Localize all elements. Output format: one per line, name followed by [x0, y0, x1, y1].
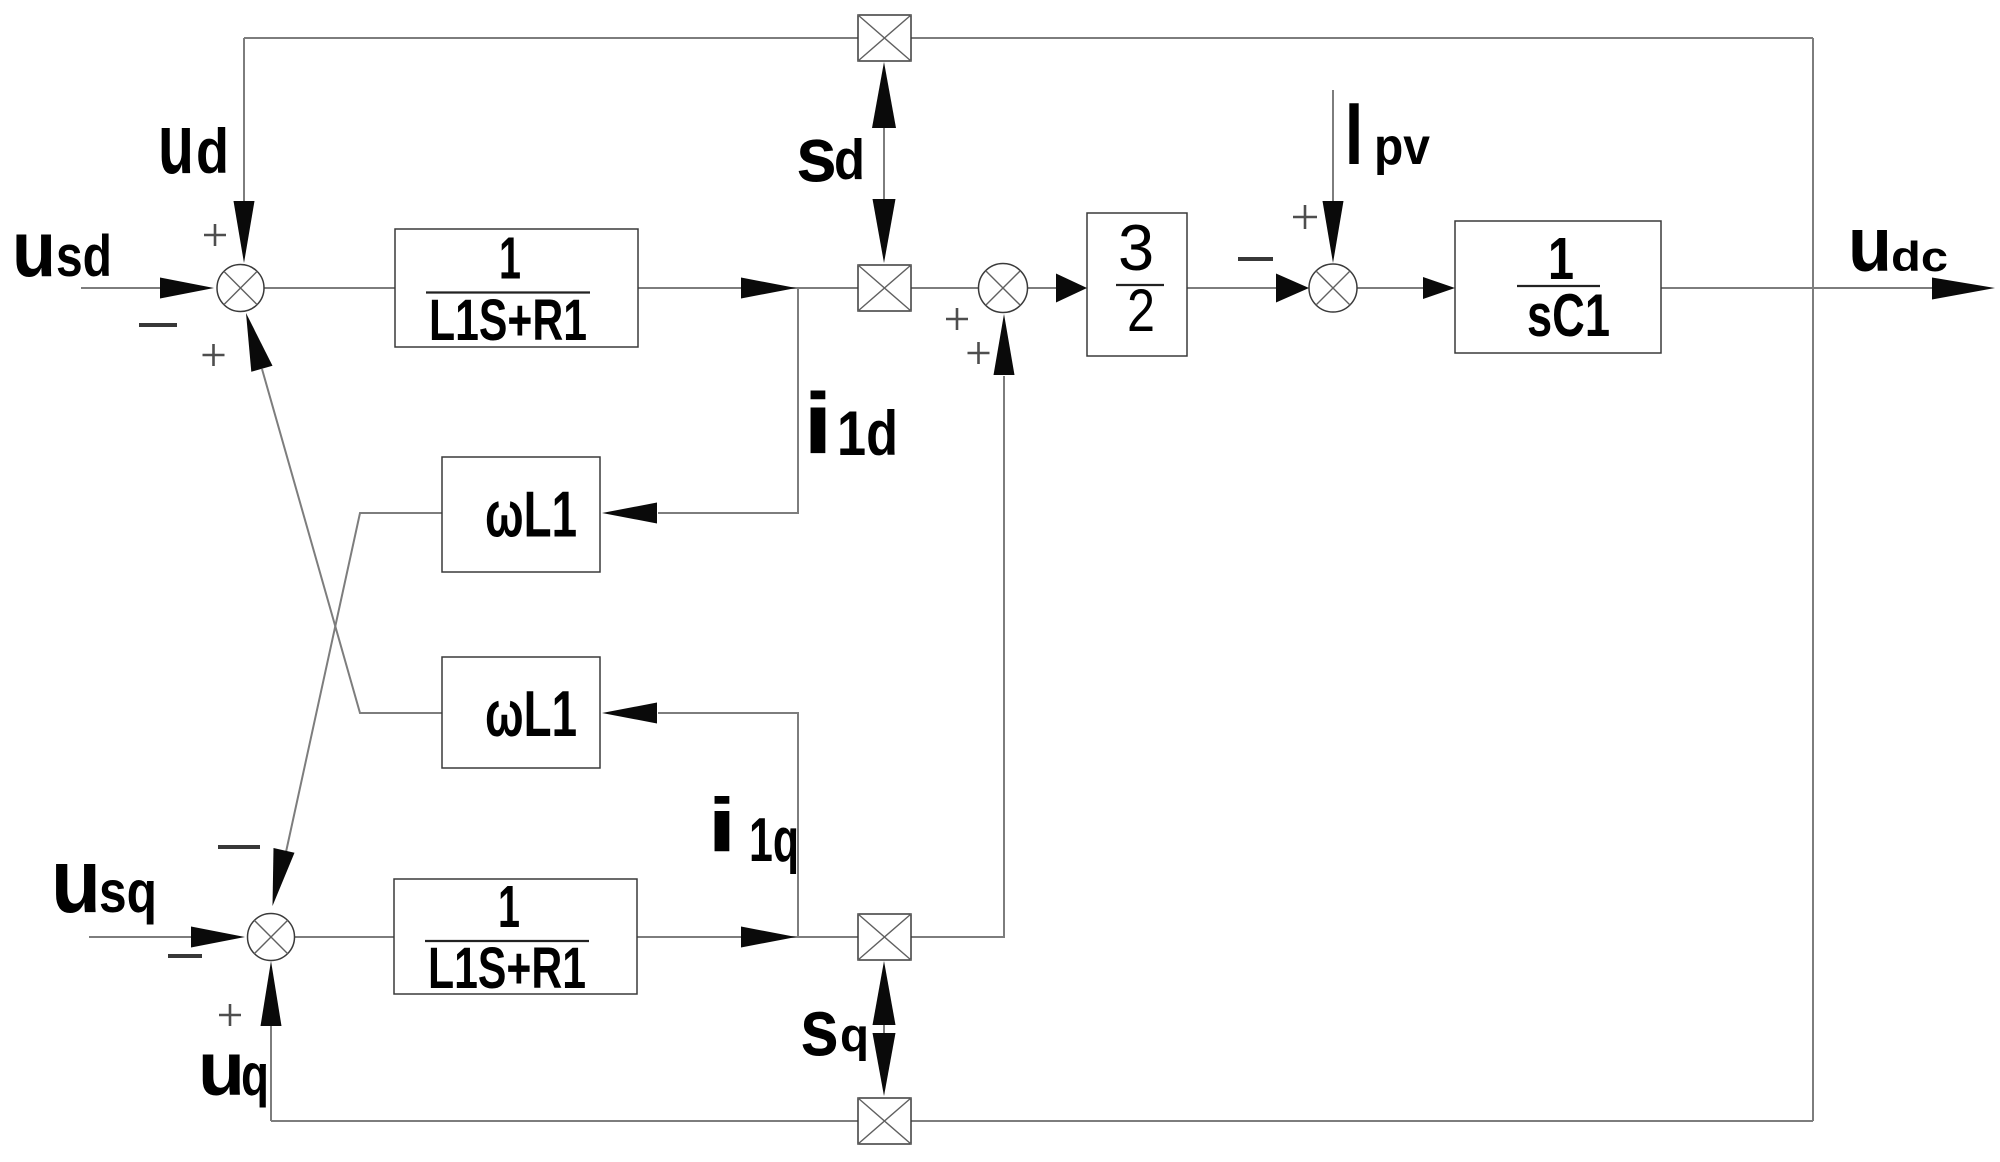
arrow sd up into M1: [872, 62, 896, 128]
wire S3 to block G3: [1357, 287, 1424, 289]
label usq: [51, 831, 157, 932]
label ud: [158, 97, 229, 192]
arrow into upper wL1: [602, 503, 657, 524]
plus sign S4 bottom: [219, 1004, 241, 1026]
svg-text:u: u: [51, 831, 101, 932]
summer S2: [979, 264, 1028, 313]
arrow S2 into G2: [1056, 274, 1087, 303]
minus sign S3 left: [1238, 257, 1273, 261]
wire M3 to S2 riser: [911, 376, 1004, 937]
minus sign S4 left: [168, 954, 202, 958]
wire G2 to summer S3: [1187, 287, 1278, 289]
plus sign S1 bottom: [203, 344, 225, 366]
svg-text:L1S+R1: L1S+R1: [429, 288, 587, 353]
wire udc output: [1661, 287, 1958, 289]
svg-text:L1S+R1: L1S+R1: [428, 936, 586, 1001]
wire S1 to block G1: [264, 287, 395, 289]
wire Ipv input: [1332, 90, 1334, 203]
wire ud drop to summer S1: [243, 38, 245, 205]
arrow upper wL1 diag into S4: [273, 848, 295, 906]
plus sign S3 top: [1293, 205, 1317, 229]
svg-text:s: s: [796, 110, 837, 198]
arrow sq down into M4: [873, 1033, 896, 1096]
svg-text:u: u: [198, 1027, 245, 1112]
svg-text:q: q: [241, 1042, 269, 1108]
wire sd link: [883, 120, 885, 205]
label sq: [800, 983, 869, 1073]
wire right feedback: [1812, 38, 1814, 1121]
label usd: [12, 204, 112, 293]
svg-text:1q: 1q: [749, 806, 799, 875]
wire lower wL1 output: [262, 369, 442, 713]
multiplier M1 top: [858, 15, 911, 61]
arrow usd into S1: [160, 278, 214, 299]
svg-text:1d: 1d: [837, 399, 898, 469]
arrow M3 riser into S2: [994, 314, 1015, 375]
plus sign S1 top: [204, 224, 226, 246]
block G1 1/(L1S+R1): [395, 226, 638, 354]
multiplier M4 bottom: [858, 1098, 911, 1144]
multiplier M3 lower: [858, 914, 911, 960]
wire sq link: [883, 1018, 885, 1040]
svg-text:u: u: [1848, 202, 1892, 288]
wire node i1d drop into upper wL1: [658, 288, 798, 513]
arrow udc output: [1932, 278, 1995, 300]
arrow uq into S4: [261, 961, 282, 1026]
svg-text:ωL1: ωL1: [485, 677, 577, 750]
wire S2 to block G2: [1027, 287, 1058, 289]
svg-text:2: 2: [1127, 277, 1155, 344]
svg-text:u: u: [12, 204, 56, 293]
summer S1: [217, 265, 264, 312]
arrow ud into S1: [234, 201, 255, 263]
svg-text:1: 1: [498, 874, 520, 940]
arrow sd down into M2: [873, 199, 896, 263]
svg-text:u: u: [158, 97, 194, 192]
wire usq input: [89, 936, 193, 938]
svg-text:s: s: [800, 983, 839, 1073]
svg-text:sC1: sC1: [1527, 282, 1610, 349]
wire G6 output to multiplier M3: [637, 936, 858, 938]
wire S4 to block G6: [294, 936, 394, 938]
svg-text:pv: pv: [1374, 118, 1430, 176]
label uq: [198, 1027, 269, 1112]
svg-text:ωL1: ωL1: [485, 478, 577, 551]
arrow G6 output at node i1q: [741, 927, 796, 948]
arrow Ipv into S3: [1323, 201, 1344, 263]
wire uq riser from bottom feedback: [270, 1020, 272, 1121]
label sd: [796, 110, 865, 198]
minus sign S4 top: [218, 845, 260, 849]
arrow usq into S4: [191, 927, 245, 948]
svg-text:i: i: [707, 783, 737, 868]
wire upper wL1 output: [286, 513, 442, 852]
svg-text:I: I: [1345, 84, 1363, 183]
label i1d: [803, 376, 898, 472]
label Ipv: [1345, 84, 1430, 183]
block G2 3/2: [1087, 211, 1187, 356]
arrow S3 into G3: [1423, 277, 1455, 299]
arrow G1 output at node i1d: [741, 278, 796, 299]
svg-text:q: q: [840, 1008, 869, 1061]
block G5 wL1 lower: [442, 657, 600, 768]
arrow G2 into S3: [1276, 274, 1309, 303]
svg-text:d: d: [196, 117, 229, 187]
wire node i1q riser into lower wL1: [658, 713, 798, 937]
block G3 1/sC1: [1455, 221, 1661, 353]
minus sign S1 left: [139, 323, 177, 327]
wire usd input: [81, 287, 165, 289]
arrow into lower wL1: [602, 703, 657, 724]
label i1q: [707, 783, 799, 875]
block G4 wL1 upper: [442, 457, 600, 572]
label udc: [1848, 202, 1948, 288]
summer S4: [248, 914, 295, 961]
plus sign S2 left: [946, 308, 968, 330]
svg-text:i: i: [803, 376, 833, 472]
svg-text:3: 3: [1118, 211, 1154, 284]
wire M2 to summer S2: [911, 287, 979, 289]
plus sign S2 bottom: [968, 342, 990, 364]
wire G1 output to multiplier M2: [638, 287, 858, 289]
arrow sq up into M3: [873, 961, 896, 1025]
svg-text:sq: sq: [99, 859, 157, 925]
svg-text:dc: dc: [1891, 233, 1948, 280]
summer S3: [1309, 264, 1357, 312]
arrow lower wL1 diag into S1: [246, 313, 273, 372]
svg-text:d: d: [834, 128, 865, 192]
block G6 1/(L1S+R1) lower: [394, 874, 637, 1001]
multiplier M2 mid: [858, 265, 911, 311]
wire top feedback: [244, 37, 1813, 39]
svg-text:1: 1: [499, 226, 521, 292]
wire bottom feedback: [271, 1120, 1813, 1122]
svg-text:sd: sd: [56, 224, 112, 289]
